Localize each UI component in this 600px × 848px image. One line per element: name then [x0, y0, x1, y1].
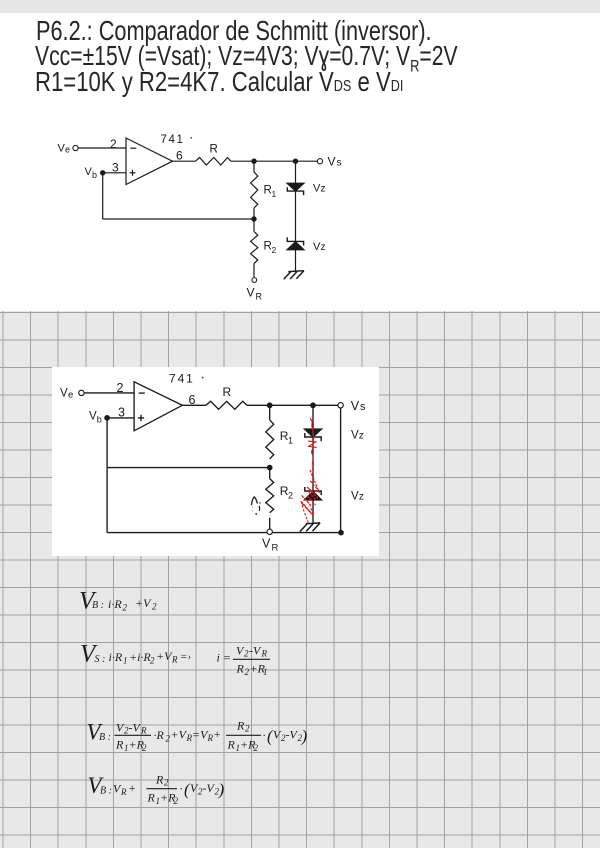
wire R to Vs — [231, 160, 318, 162]
svg-text:i·R: i·R — [109, 650, 123, 664]
svg-text:2: 2 — [142, 743, 147, 753]
svg-text:B :: B : — [92, 600, 104, 611]
svg-text:2: 2 — [117, 381, 124, 395]
svg-text:V: V — [351, 399, 360, 413]
svg-text:R: R — [120, 787, 127, 797]
svg-text:): ) — [218, 780, 225, 799]
wire R2 to VR — [269, 518, 271, 533]
red dotted diagonal upper — [310, 471, 319, 493]
wire into R1 — [269, 405, 271, 420]
node junction R1/R2 dot — [268, 465, 272, 469]
wire Vs right vertical — [340, 408, 342, 532]
svg-text:3: 3 — [112, 161, 119, 175]
svg-text:z: z — [321, 242, 326, 253]
red dotted diagonal upper 2 — [311, 481, 320, 492]
svg-text:741: 741 — [161, 134, 185, 146]
red tick above top zener — [310, 419, 312, 423]
wire between zeners — [312, 437, 314, 491]
resistor R2 zigzag — [266, 479, 274, 513]
svg-text:-V: -V — [129, 721, 142, 735]
node Vb dot — [101, 171, 105, 175]
svg-text:+: + — [213, 727, 221, 741]
node VR terminal — [267, 529, 272, 534]
white screenshot box — [52, 367, 379, 556]
resistor R1 zigzag — [266, 420, 274, 459]
svg-text:R: R — [171, 655, 178, 665]
title line 1 — [36, 17, 432, 45]
node Ve terminal — [73, 145, 78, 150]
op-amp plus sign — [130, 170, 136, 176]
svg-text:z: z — [359, 491, 364, 503]
svg-text:2: 2 — [164, 778, 169, 788]
svg-text:2: 2 — [174, 796, 179, 806]
wire into R1 — [253, 161, 255, 172]
wire op-amp output — [182, 404, 206, 406]
svg-text:R: R — [261, 649, 268, 659]
op-amp plus sign — [138, 415, 144, 421]
svg-text:R: R — [223, 385, 232, 399]
svg-text:e: e — [68, 390, 73, 401]
op-amp U1 (741) triangle — [126, 138, 173, 185]
wire op-amp output — [173, 160, 196, 162]
svg-text:e: e — [65, 145, 70, 155]
wire left vertical — [106, 418, 108, 533]
node Ve terminal — [79, 390, 84, 395]
red dashed wavy line — [312, 450, 314, 481]
svg-text:z: z — [359, 430, 364, 442]
svg-text:i =: i = — [217, 651, 231, 665]
node Vs terminal — [338, 403, 343, 408]
op-amp minus sign — [139, 392, 145, 394]
node junction zener branch — [293, 159, 297, 163]
svg-text:·R: ·R — [154, 728, 165, 742]
svg-text:B :: B : — [99, 732, 111, 743]
red dotted tail right — [310, 505, 314, 516]
red scribble over bottom zener — [302, 487, 318, 505]
svg-text:V: V — [351, 430, 359, 442]
node junction R1/R2 dot — [252, 217, 256, 221]
wire feedback horizontal — [103, 218, 254, 220]
node VR terminal — [252, 278, 257, 283]
svg-text:2: 2 — [123, 603, 128, 613]
node junction zener branch — [311, 403, 315, 407]
equation 2: Vs = i·R1+i·R2+VR => i=(V2-VR)/(R2+R1) — [80, 641, 270, 678]
svg-text:R: R — [272, 543, 279, 554]
svg-text:R: R — [140, 726, 147, 736]
red z squiggle below top zener — [309, 441, 317, 447]
svg-text:1: 1 — [263, 667, 268, 677]
svg-text:6: 6 — [176, 149, 183, 163]
wire feedback vertical from Vb — [102, 173, 104, 219]
title line 3 — [35, 68, 403, 101]
svg-text:2: 2 — [272, 245, 277, 255]
svg-text:R: R — [210, 144, 218, 156]
svg-text:2: 2 — [288, 491, 293, 501]
svg-text:6: 6 — [189, 393, 196, 407]
svg-text:R: R — [147, 791, 156, 805]
svg-text:741: 741 — [169, 372, 195, 386]
node dot bottom right — [339, 530, 343, 534]
red dotted tail left — [301, 502, 307, 521]
red pen annotations — [301, 419, 319, 525]
wire zener to ground — [295, 250, 297, 271]
svg-text:i·R: i·R — [108, 597, 122, 611]
svg-text:V: V — [351, 491, 359, 503]
zener diode Vz bottom — [305, 487, 321, 495]
red dots near ground — [307, 521, 310, 524]
svg-text:1: 1 — [288, 436, 293, 446]
svg-text:-V: -V — [249, 644, 262, 658]
svg-text:R: R — [256, 292, 263, 302]
wire zener to ground — [312, 500, 314, 523]
svg-text:V: V — [328, 155, 336, 169]
svg-text:S :: S : — [95, 654, 106, 665]
wire R1 to node — [253, 208, 255, 219]
svg-text:+i·R: +i·R — [129, 650, 151, 664]
zener diode Vz top — [305, 429, 322, 437]
svg-text:+V: +V — [156, 649, 173, 663]
svg-text:V: V — [60, 388, 68, 400]
svg-text:·: · — [263, 728, 266, 742]
wire Ve to pin 2 — [84, 392, 134, 394]
node junction R/R1 — [252, 159, 256, 163]
svg-text:+V: +V — [171, 728, 188, 742]
svg-text:V: V — [89, 411, 97, 423]
top gray band — [0, 0, 600, 13]
wire Vb to pin 3 — [103, 172, 126, 174]
equation 1: VB = i·R2+V2 — [79, 588, 157, 615]
equation 3 — [87, 719, 308, 754]
node Vs terminal — [317, 159, 322, 164]
node junction R/R1 — [268, 403, 272, 407]
zener diode Vz bottom — [287, 237, 303, 245]
svg-text:V: V — [262, 537, 271, 551]
red stroke across top zener — [312, 424, 314, 439]
svg-text:b: b — [97, 415, 102, 425]
zener diode Vz top — [287, 183, 304, 191]
svg-text:V: V — [247, 286, 255, 300]
wire Vb to pin 3 — [107, 417, 134, 419]
svg-text:+: + — [128, 781, 136, 795]
svg-text:z: z — [321, 184, 326, 195]
wire feedback horizontal — [107, 467, 270, 469]
svg-text:3: 3 — [118, 406, 125, 420]
svg-text:=›: =› — [180, 651, 191, 663]
svg-text:1: 1 — [123, 656, 128, 666]
svg-text:·: · — [180, 782, 183, 796]
svg-text:2: 2 — [245, 724, 250, 734]
svg-text:R: R — [236, 662, 245, 676]
svg-text:R: R — [155, 773, 164, 787]
title line 2 — [35, 42, 458, 81]
wire R to Vs — [247, 404, 338, 406]
svg-text:b: b — [92, 170, 97, 180]
squared grid background — [0, 311, 600, 848]
svg-text:R: R — [115, 738, 124, 752]
wire R2 to VR — [253, 264, 255, 278]
equation 4 — [88, 773, 225, 807]
svg-text:s: s — [360, 401, 366, 413]
red hatch lower left — [301, 502, 313, 516]
svg-text:B :: B : — [100, 786, 112, 797]
op-amp minus sign — [130, 147, 136, 149]
wire Ve to pin 2 — [78, 147, 126, 149]
svg-text:R: R — [236, 719, 245, 733]
ground — [300, 523, 320, 532]
ground — [284, 271, 304, 280]
wire between zeners — [295, 191, 297, 241]
op-amp U1 (741) triangle — [134, 382, 182, 431]
svg-text:+V: +V — [135, 596, 152, 610]
svg-text:2: 2 — [254, 743, 259, 753]
wire into R2 — [269, 468, 271, 479]
resistor R1 zigzag — [251, 172, 258, 208]
svg-text:s: s — [337, 157, 342, 169]
wire zener branch down — [312, 405, 314, 429]
resistor R2 zigzag — [251, 232, 258, 264]
svg-text:1: 1 — [272, 189, 277, 199]
wire zener branch down — [295, 161, 297, 183]
resistor R zigzag — [195, 158, 230, 166]
resistor R zigzag — [206, 401, 247, 409]
svg-text:R: R — [227, 738, 236, 752]
svg-text:2: 2 — [150, 656, 155, 666]
wire R1 to node — [269, 465, 271, 468]
svg-text:2: 2 — [152, 602, 157, 612]
wire into R2 — [253, 219, 255, 232]
handwritten mark lambda near R2 — [251, 497, 260, 515]
node Vb dot — [105, 416, 109, 420]
wire bottom horizontal — [107, 532, 341, 534]
svg-text:2: 2 — [110, 137, 117, 151]
svg-text:): ) — [301, 727, 308, 746]
